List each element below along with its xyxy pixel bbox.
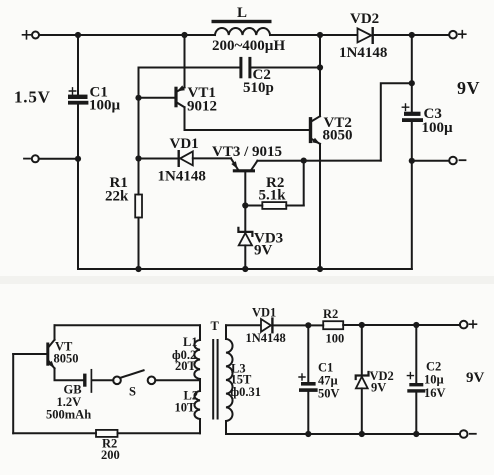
- wire collector net corner to output: [381, 83, 412, 160]
- wire C1 branch lower: [77, 105, 79, 269]
- wire switch to transformer tap: [155, 379, 200, 381]
- svg-text:T: T: [211, 319, 220, 333]
- transistor VT2 8050: [311, 115, 353, 144]
- wire C2 right to VT2 collector line: [252, 67, 321, 69]
- capacitor C2 10u 16V: [407, 325, 445, 434]
- wire top rail left: [39, 34, 215, 36]
- wire R2 to transformer bottom: [118, 432, 201, 434]
- svg-text:C1: C1: [318, 361, 333, 375]
- transformer primary winding L2 10T: [175, 389, 201, 434]
- node C1 top: [305, 322, 311, 328]
- svg-text:1.5V: 1.5V: [14, 88, 51, 107]
- transistor VT3 9015: [212, 144, 282, 171]
- svg-text:ф0.31: ф0.31: [231, 385, 262, 399]
- wire secondary bottom to minus terminal: [226, 433, 460, 435]
- node VD2 bottom: [359, 431, 365, 437]
- wire - input to C1 line: [39, 158, 78, 160]
- svg-text:9V: 9V: [371, 381, 386, 395]
- wire left vertical VT1 base line: [138, 68, 140, 195]
- terminal - output bottom circuit: [460, 430, 476, 438]
- wire top rail right: [373, 34, 449, 36]
- svg-text:500mAh: 500mAh: [46, 408, 91, 422]
- battery GB 1.2V 500mAh: [46, 370, 91, 422]
- wire left vertical base loop: [12, 354, 14, 433]
- terminal - output: [449, 157, 465, 165]
- wire VT1 collector to VT2 base: [185, 107, 311, 130]
- svg-text:200: 200: [101, 448, 120, 462]
- wire bottom left loop with R2: [13, 432, 96, 434]
- terminal + input 1.5V: [23, 31, 40, 39]
- wire VT2 emitter down: [319, 144, 321, 269]
- svg-text:L1: L1: [183, 335, 198, 349]
- svg-text:9V: 9V: [457, 78, 480, 98]
- wire VD1 to VT3 emitter: [193, 157, 231, 159]
- wire VT2 collector up: [319, 35, 321, 116]
- wire VT emitter down: [55, 368, 84, 380]
- wire feedback top (C2 line): [139, 67, 240, 69]
- svg-text:5.1k: 5.1k: [259, 188, 287, 204]
- svg-text:R2: R2: [323, 307, 338, 321]
- svg-text:10µ: 10µ: [424, 373, 444, 387]
- svg-text:L: L: [237, 5, 247, 21]
- capacitor C1 47u 50V: [299, 325, 340, 434]
- wire collector top to transformer: [55, 324, 201, 326]
- svg-text:20T: 20T: [175, 359, 197, 373]
- terminal + output 9V: [449, 31, 466, 39]
- node C1 bottom: [305, 431, 311, 437]
- wire node to VD1: [139, 158, 178, 160]
- svg-text:50V: 50V: [318, 387, 340, 401]
- node top rail / VT1 emitter: [181, 32, 187, 38]
- resistor R2 100: [323, 307, 344, 346]
- wire secondary top to VD1: [226, 324, 261, 326]
- svg-text:VD2: VD2: [350, 11, 379, 27]
- wire output line lower: [411, 122, 413, 269]
- diode VD1 1N4148: [158, 136, 206, 185]
- node VT3 base / R2 / VD3: [242, 202, 248, 208]
- diode VD2 1N4148: [339, 11, 387, 61]
- wire C1 branch upper: [77, 35, 79, 94]
- transformer secondary winding L3 15T: [226, 325, 261, 434]
- resistor R1 22k: [105, 175, 142, 269]
- terminal + output bottom circuit: [460, 321, 477, 329]
- node VD1 / R1: [135, 155, 141, 161]
- wire VT collector up: [54, 325, 56, 340]
- svg-text:1N4148: 1N4148: [158, 169, 206, 185]
- node C2 / VT2 collector: [317, 64, 323, 70]
- transformer primary winding L1 20T: [172, 325, 200, 379]
- wire bottom rail: [78, 268, 412, 270]
- terminal - input: [24, 155, 39, 162]
- node output minus: [409, 158, 415, 164]
- zener diode VD3 9V: [238, 206, 283, 270]
- svg-text:VD1: VD1: [252, 306, 276, 320]
- svg-text:8050: 8050: [54, 352, 79, 366]
- svg-text:9V: 9V: [254, 243, 273, 259]
- svg-text:S: S: [129, 385, 136, 399]
- zener diode VD2 9V bottom: [356, 325, 394, 434]
- node top rail / VT2 collector: [317, 32, 323, 38]
- node VT1 base: [135, 95, 141, 101]
- svg-text:8050: 8050: [323, 128, 353, 144]
- resistor R2 5.1k: [245, 175, 303, 209]
- wire R2 to plus terminal: [343, 324, 460, 326]
- transistor VT 8050 bottom: [48, 340, 79, 369]
- resistor R2 200: [96, 430, 120, 462]
- svg-text:16V: 16V: [424, 386, 446, 400]
- diode VD1 1N4148 bottom: [246, 306, 286, 346]
- node C2 bottom: [413, 431, 419, 437]
- transformer core T: [211, 319, 220, 420]
- wire VT base left: [13, 353, 48, 355]
- node C2 top: [413, 322, 419, 328]
- node output plus / regulator: [409, 80, 415, 86]
- node bottom rail VT2 emitter: [317, 266, 323, 272]
- svg-text:22k: 22k: [105, 189, 129, 205]
- capacitor C2 510p: [241, 58, 274, 96]
- node bottom rail R1: [135, 266, 141, 272]
- wire output line upper: [411, 35, 413, 112]
- wire VT3 base down: [244, 172, 246, 205]
- node minus input: [75, 156, 81, 162]
- wire VT1 emitter vertical: [184, 35, 186, 88]
- node VD2 top: [359, 322, 365, 328]
- node bottom rail VD3: [242, 266, 248, 272]
- svg-text:1N4148: 1N4148: [339, 45, 387, 61]
- wire battery to switch: [92, 379, 113, 381]
- wire VT1 base: [139, 97, 177, 99]
- svg-text:100µ: 100µ: [422, 120, 454, 136]
- wire top rail middle: [270, 34, 357, 36]
- svg-text:C2: C2: [426, 360, 441, 374]
- capacitor C3 100u: [402, 104, 453, 136]
- svg-text:47µ: 47µ: [318, 374, 338, 388]
- svg-text:9V: 9V: [466, 370, 485, 386]
- wire R2 up to collector wire: [303, 161, 305, 206]
- node R2 / VT3 collector wire: [301, 158, 307, 164]
- svg-text:100µ: 100µ: [89, 98, 121, 114]
- inductor L 200~400uH: [212, 5, 286, 54]
- svg-text:VD1: VD1: [170, 136, 199, 152]
- wire VT3 collector to right: [257, 160, 380, 162]
- svg-text:9012: 9012: [187, 99, 217, 115]
- svg-text:200~400µH: 200~400µH: [212, 38, 285, 54]
- node top rail / output plus line: [409, 32, 415, 38]
- wire primary tap segment: [199, 379, 201, 391]
- transistor VT1 9012: [176, 85, 217, 115]
- wire VD1 to R2: [273, 324, 323, 326]
- svg-text:VT3 / 9015: VT3 / 9015: [212, 144, 282, 160]
- svg-text:10T: 10T: [175, 401, 197, 415]
- node top rail / C1: [75, 32, 81, 38]
- svg-text:100: 100: [326, 332, 345, 346]
- svg-text:510p: 510p: [243, 80, 274, 96]
- wire to minus output terminal: [412, 160, 449, 162]
- svg-text:1N4148: 1N4148: [246, 331, 286, 345]
- capacitor C1 100u: [68, 85, 121, 114]
- switch S: [113, 370, 155, 398]
